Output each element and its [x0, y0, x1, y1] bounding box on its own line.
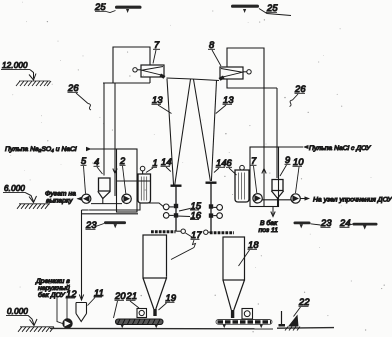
label 13 right [216, 95, 235, 114]
svg-text:7: 7 [251, 156, 257, 166]
label 14 right [214, 158, 227, 173]
equipment 21 on conveyor [137, 309, 147, 318]
drain to tank line [271, 207, 275, 217]
inlet line pulp Na2SO4 [86, 147, 137, 151]
svg-text:0.000: 0.000 [7, 307, 28, 316]
inlet line pulp NaCl [250, 145, 309, 149]
label 8 [208, 40, 221, 66]
drain pipe to hopper 11 [79, 210, 83, 300]
silo left [143, 232, 176, 309]
label 17 [171, 230, 202, 260]
label 14 left [161, 157, 172, 172]
svg-text:25: 25 [94, 2, 106, 12]
svg-text:14: 14 [161, 157, 172, 167]
svg-text:Фугат на: Фугат на [45, 190, 76, 197]
svg-text:2: 2 [119, 156, 126, 166]
conveyor 25 right [231, 5, 259, 13]
cyclone 9 [271, 180, 283, 207]
label 26 right [290, 84, 307, 107]
chute crossbar between feeders [167, 78, 220, 81]
valve circle 16 [163, 213, 173, 219]
vent circle on silo right [204, 230, 211, 234]
svg-text:16: 16 [191, 211, 202, 221]
label 13 left [152, 95, 172, 114]
conveyor symbol 23 left [104, 221, 126, 228]
ramp 22 [285, 315, 300, 331]
svg-text:6: 6 [227, 158, 233, 168]
label 19 [159, 293, 177, 310]
svg-text:Пульпа Nа₂SО₄ и NаCl: Пульпа Nа₂SО₄ и NаCl [5, 146, 77, 153]
svg-text:25: 25 [266, 3, 278, 13]
label 4 [94, 157, 103, 174]
level mark 6.000 [3, 184, 50, 209]
chute funnel right line b [211, 81, 216, 181]
valve on right pipe lower [209, 213, 213, 217]
label 6 [226, 158, 237, 175]
ground line right [277, 327, 334, 330]
svg-text:20: 20 [114, 291, 126, 301]
svg-text:17: 17 [191, 230, 202, 240]
tank 6 [235, 165, 249, 202]
chute funnel right line a [194, 79, 211, 181]
svg-text:23: 23 [85, 220, 97, 230]
pump 2 [122, 194, 131, 203]
svg-text:9: 9 [285, 155, 290, 165]
support post right [279, 311, 286, 327]
svg-text:12.000: 12.000 [2, 61, 28, 70]
label 23 right [311, 218, 333, 228]
feeder box left [103, 47, 150, 83]
silo feed pipe left [171, 186, 182, 232]
pipe from feeder box right to pump 7 [263, 88, 265, 207]
svg-text:18: 18 [248, 240, 259, 250]
label 10 [293, 157, 305, 193]
label 26 left [67, 83, 91, 110]
label 11 [88, 288, 105, 306]
tank 1 [138, 166, 151, 203]
svg-text:23: 23 [320, 218, 332, 228]
cyclone 4 [98, 178, 111, 204]
svg-text:15: 15 [191, 201, 202, 211]
svg-text:8: 8 [209, 40, 215, 50]
level mark 0.000 [6, 307, 54, 332]
label 2 [119, 156, 126, 194]
svg-text:Дренажи в: Дренажи в [35, 278, 70, 285]
pipe from feeder box left to cyclone 4 [103, 83, 105, 176]
level mark 12.000 [1, 61, 51, 86]
conveyor symbol 23 right [294, 222, 311, 229]
silo right [210, 233, 245, 310]
svg-text:4: 4 [94, 157, 99, 167]
discharge arrow fugat [77, 197, 83, 201]
svg-text:21: 21 [126, 291, 138, 301]
chute funnel left line b [175, 79, 191, 186]
feeder 7 [133, 65, 166, 79]
svg-text:10: 10 [293, 157, 304, 167]
valve on left pipe upper [174, 204, 178, 208]
drain line from text to pump 12 [57, 292, 63, 324]
conveyor 19 [116, 319, 164, 328]
pipe from feeder box right to cyclone 9 [276, 88, 278, 178]
silo right outlet [231, 310, 234, 318]
svg-text:бак ДОУ: бак ДОУ [38, 291, 65, 299]
svg-text:24: 24 [339, 218, 351, 228]
pump 5 [82, 194, 91, 203]
pipe from feeder box left to pump 2 [114, 83, 116, 196]
ground line main [50, 327, 273, 329]
pump 12 [63, 319, 72, 328]
leader line 12 to pump [66, 298, 68, 320]
feeder 8 [219, 67, 252, 81]
pump 7 enclosure box [250, 147, 279, 207]
svg-text:13: 13 [223, 95, 234, 105]
valve circle 15 [163, 204, 174, 210]
svg-text:выпарку: выпарку [46, 198, 73, 205]
label 22 [294, 297, 311, 317]
svg-text:26: 26 [294, 84, 306, 94]
svg-text:11: 11 [94, 288, 104, 298]
label 21 [126, 291, 140, 308]
svg-text:Пульпа NаCl с ДОУ: Пульпа NаCl с ДОУ [309, 145, 371, 152]
silo feed pipe right [206, 183, 217, 232]
label 12 [66, 289, 78, 299]
svg-text:7: 7 [154, 40, 160, 50]
hopper 11 [76, 303, 87, 322]
chute funnel left line a [167, 79, 174, 186]
pump 7 unit [253, 194, 262, 203]
svg-text:19: 19 [166, 293, 177, 303]
svg-text:26: 26 [67, 83, 79, 93]
label 7 [153, 40, 160, 64]
valve on right pipe upper [209, 204, 213, 208]
suction header right [262, 199, 291, 201]
flow arrow down on pump2 feed pipe [113, 167, 117, 174]
pump 10 [291, 194, 300, 203]
svg-text:14: 14 [216, 158, 227, 168]
feeder box right [227, 48, 277, 88]
label 24 [339, 218, 354, 228]
svg-text:22: 22 [298, 297, 310, 307]
conveyor 25 left [115, 6, 142, 13]
label 20 [114, 291, 127, 318]
valve circle right lower [213, 213, 222, 219]
label 25 left [94, 2, 116, 13]
label 5 [81, 156, 88, 194]
label 18 [239, 240, 260, 266]
svg-text:1: 1 [153, 158, 158, 168]
silo left outlet [153, 309, 156, 316]
pump 2 enclosure box [117, 149, 138, 212]
equipment on conveyor right [242, 309, 253, 320]
conveyor symbol 24 [353, 223, 378, 230]
discharge arrow na uzel [300, 196, 310, 200]
drain header left [82, 203, 164, 210]
label 23 left [85, 220, 104, 230]
svg-text:5: 5 [81, 156, 87, 166]
svg-text:13: 13 [152, 95, 163, 105]
svg-text:12: 12 [66, 289, 77, 299]
flow arrow up on pump7 feed pipe [262, 169, 266, 177]
suction header left [91, 203, 122, 205]
label 15 [179, 201, 202, 211]
svg-text:В бак: В бак [260, 219, 278, 227]
label 16 [177, 211, 202, 221]
label 25 right [259, 3, 291, 16]
label 7 mid [251, 156, 258, 193]
label 9 [280, 155, 291, 176]
valve circle right upper [213, 205, 222, 211]
svg-text:поз 11: поз 11 [259, 227, 279, 234]
label 1 [146, 158, 158, 173]
conveyor 22 bed [216, 320, 272, 329]
svg-text:6.000: 6.000 [4, 184, 25, 193]
svg-text:На узел упрочнения ДОУ: На узел упрочнения ДОУ [313, 196, 392, 203]
valve on left pipe lower [174, 213, 178, 217]
vent circle on silo left [177, 229, 186, 233]
connector box to tank 1 [117, 180, 151, 182]
